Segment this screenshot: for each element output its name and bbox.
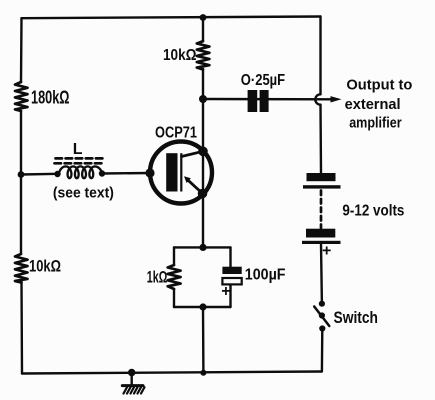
svg-text:L: L xyxy=(73,141,83,158)
svg-text:1kΩ: 1kΩ xyxy=(147,268,168,287)
svg-text:+: + xyxy=(322,243,331,260)
svg-text:(see text): (see text) xyxy=(53,185,114,202)
svg-text:9-12 volts: 9-12 volts xyxy=(342,203,404,220)
svg-text:180kΩ: 180kΩ xyxy=(31,88,70,108)
svg-text:10kΩ: 10kΩ xyxy=(29,257,61,276)
svg-text:Output to: Output to xyxy=(346,77,412,94)
svg-text:Switch: Switch xyxy=(334,308,379,327)
svg-text:O·25µF: O·25µF xyxy=(241,72,285,89)
svg-text:external: external xyxy=(345,96,401,113)
svg-text:amplifier: amplifier xyxy=(349,115,402,132)
svg-text:10kΩ: 10kΩ xyxy=(163,47,197,64)
svg-text:OCP71: OCP71 xyxy=(155,125,197,142)
svg-text:+: + xyxy=(221,283,230,300)
svg-text:100µF: 100µF xyxy=(245,266,286,283)
